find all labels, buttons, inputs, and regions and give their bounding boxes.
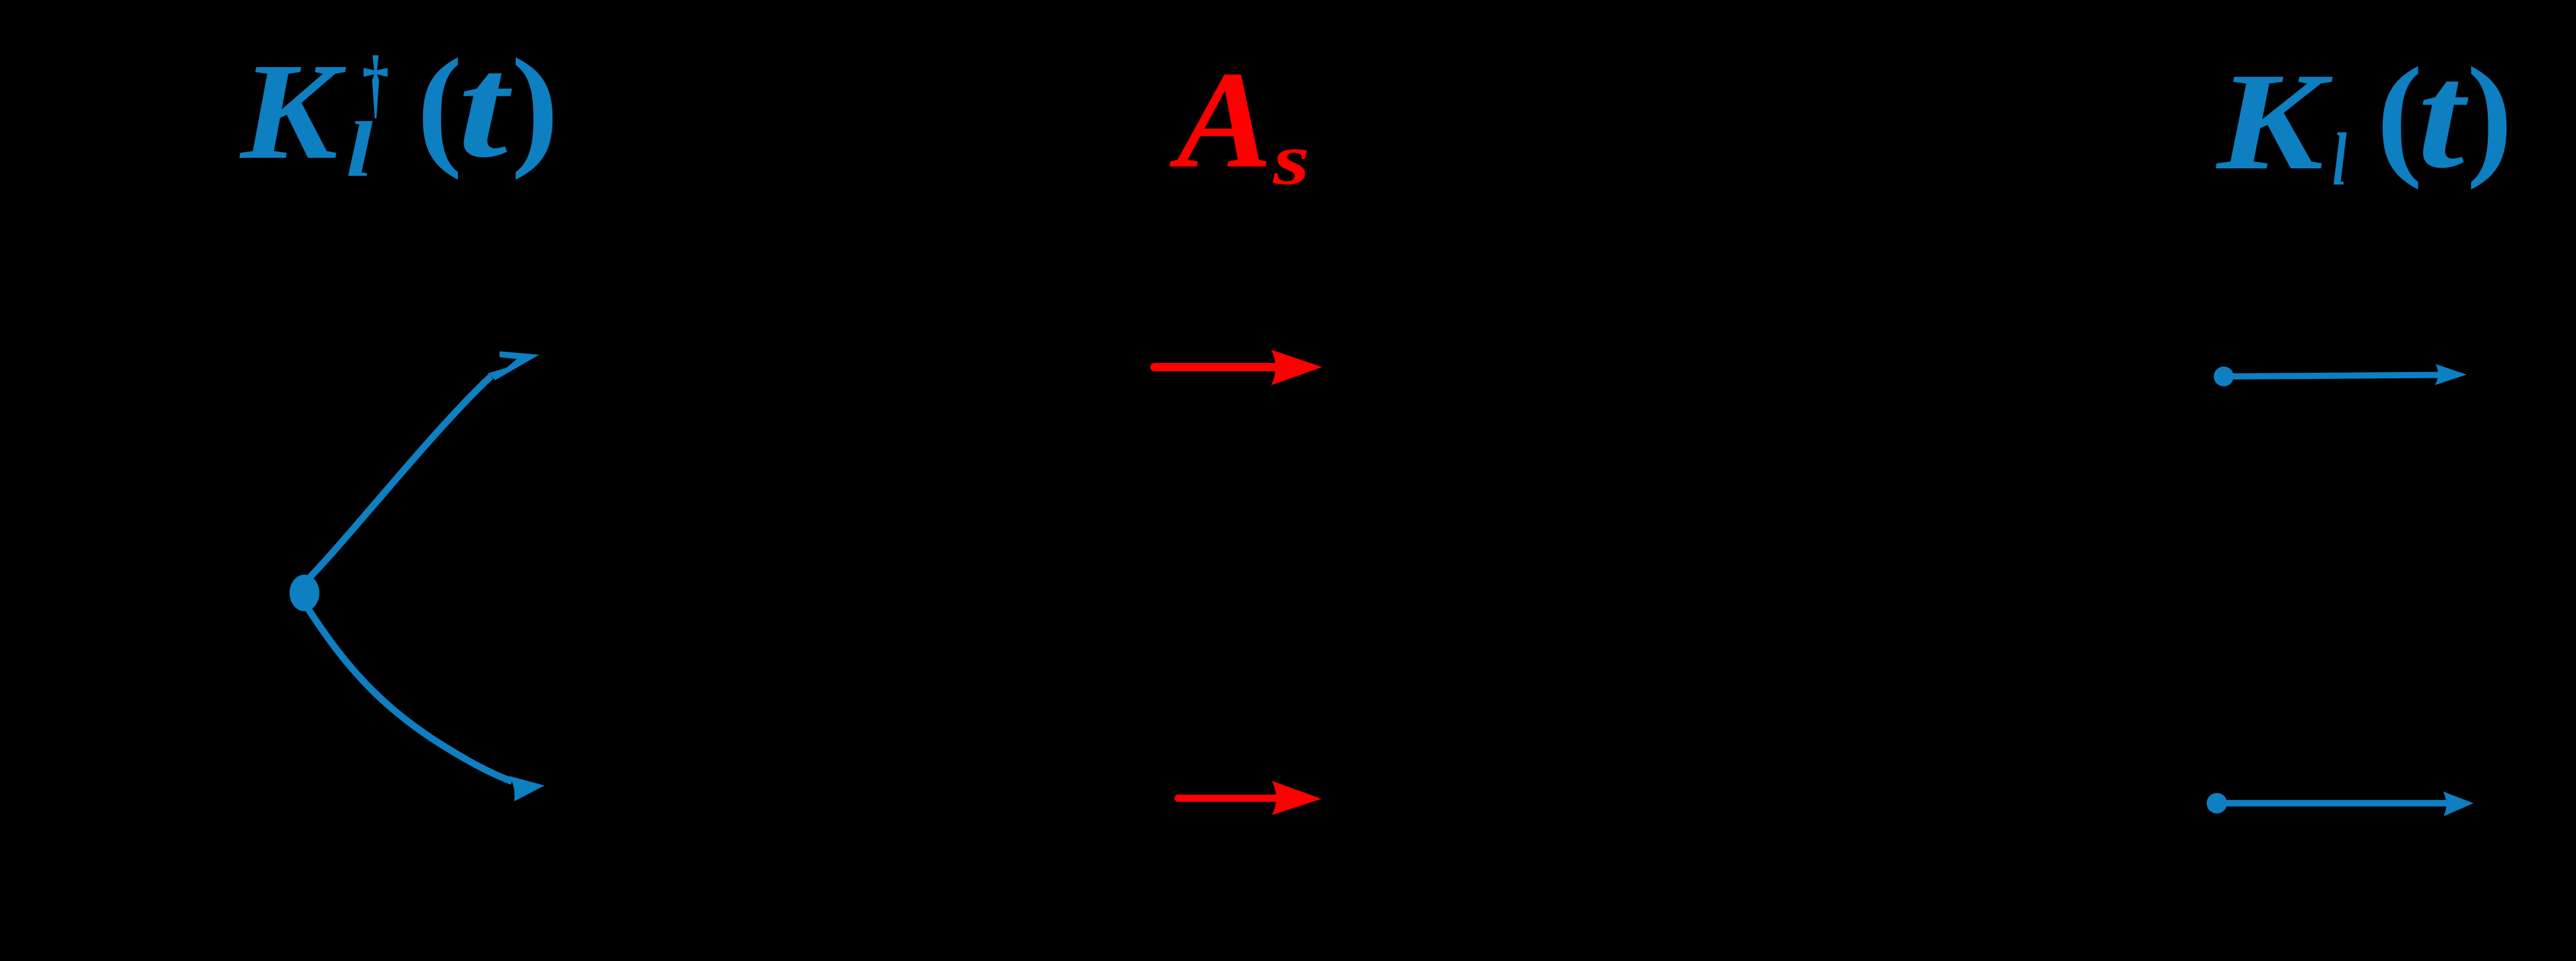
svg-text:t: t [2418, 32, 2469, 199]
svg-text:K: K [239, 35, 347, 188]
svg-text:): ) [2467, 40, 2513, 191]
svg-text:s: s [1272, 119, 1310, 200]
svg-text:(: ( [2377, 40, 2423, 191]
svg-text:K: K [2216, 43, 2333, 199]
svg-text:t: t [458, 26, 513, 188]
svg-text:(: ( [417, 31, 462, 180]
svg-text:): ) [511, 31, 559, 180]
svg-text:l: l [2332, 118, 2347, 201]
svg-text:A: A [1169, 43, 1272, 197]
svg-text:l: l [346, 106, 373, 193]
